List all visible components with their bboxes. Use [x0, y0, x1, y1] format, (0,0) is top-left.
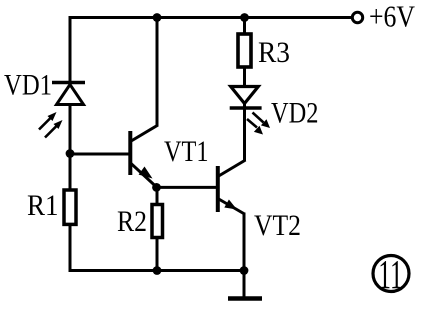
svg-text:R2: R2 [117, 205, 147, 238]
node junction VD1 / VT1 base [66, 149, 75, 158]
node junction R2 / bottom rail [153, 266, 162, 275]
wire top rail [70, 16, 352, 19]
node junction VT2 emitter / bottom rail / ground [240, 266, 249, 275]
svg-text:VD1: VD1 [4, 69, 52, 102]
wire bottom rail [70, 269, 244, 272]
svg-text:VD2: VD2 [271, 97, 319, 130]
wire VT1 base lead [70, 153, 129, 156]
LED VD2 [230, 87, 270, 135]
svg-text:VT1: VT1 [164, 135, 209, 168]
svg-text:R3: R3 [258, 36, 290, 69]
photodiode VD1 [39, 83, 85, 138]
ground [228, 271, 262, 299]
wire R3/VD2/VT2-collector column [243, 16, 246, 161]
svg-text:R1: R1 [27, 189, 59, 222]
node junction top rail / R3 [240, 13, 249, 22]
terminal +6V circle [352, 12, 362, 22]
wire left vertical (VD1 / R1 column) [69, 16, 72, 272]
node junction VT1 emitter / R2 / VT2 base [152, 183, 161, 192]
transistor VT1 [130, 125, 158, 187]
resistor R2 [152, 205, 163, 238]
wire VT1 collector vertical [156, 16, 159, 127]
wire VT2 emitter vertical [243, 213, 246, 273]
resistor R1 [64, 190, 76, 224]
svg-text:11: 11 [378, 251, 403, 297]
wire VT1 emitter to VT2 base [157, 186, 218, 189]
transistor VT2 [218, 160, 246, 214]
figure number 11 (circled) [373, 251, 409, 297]
svg-text:VT2: VT2 [254, 209, 301, 242]
svg-text:+6V: +6V [369, 0, 416, 34]
wire R2 column [156, 187, 159, 272]
node junction top rail / VT1 collector [153, 13, 162, 22]
resistor R3 [238, 34, 251, 67]
